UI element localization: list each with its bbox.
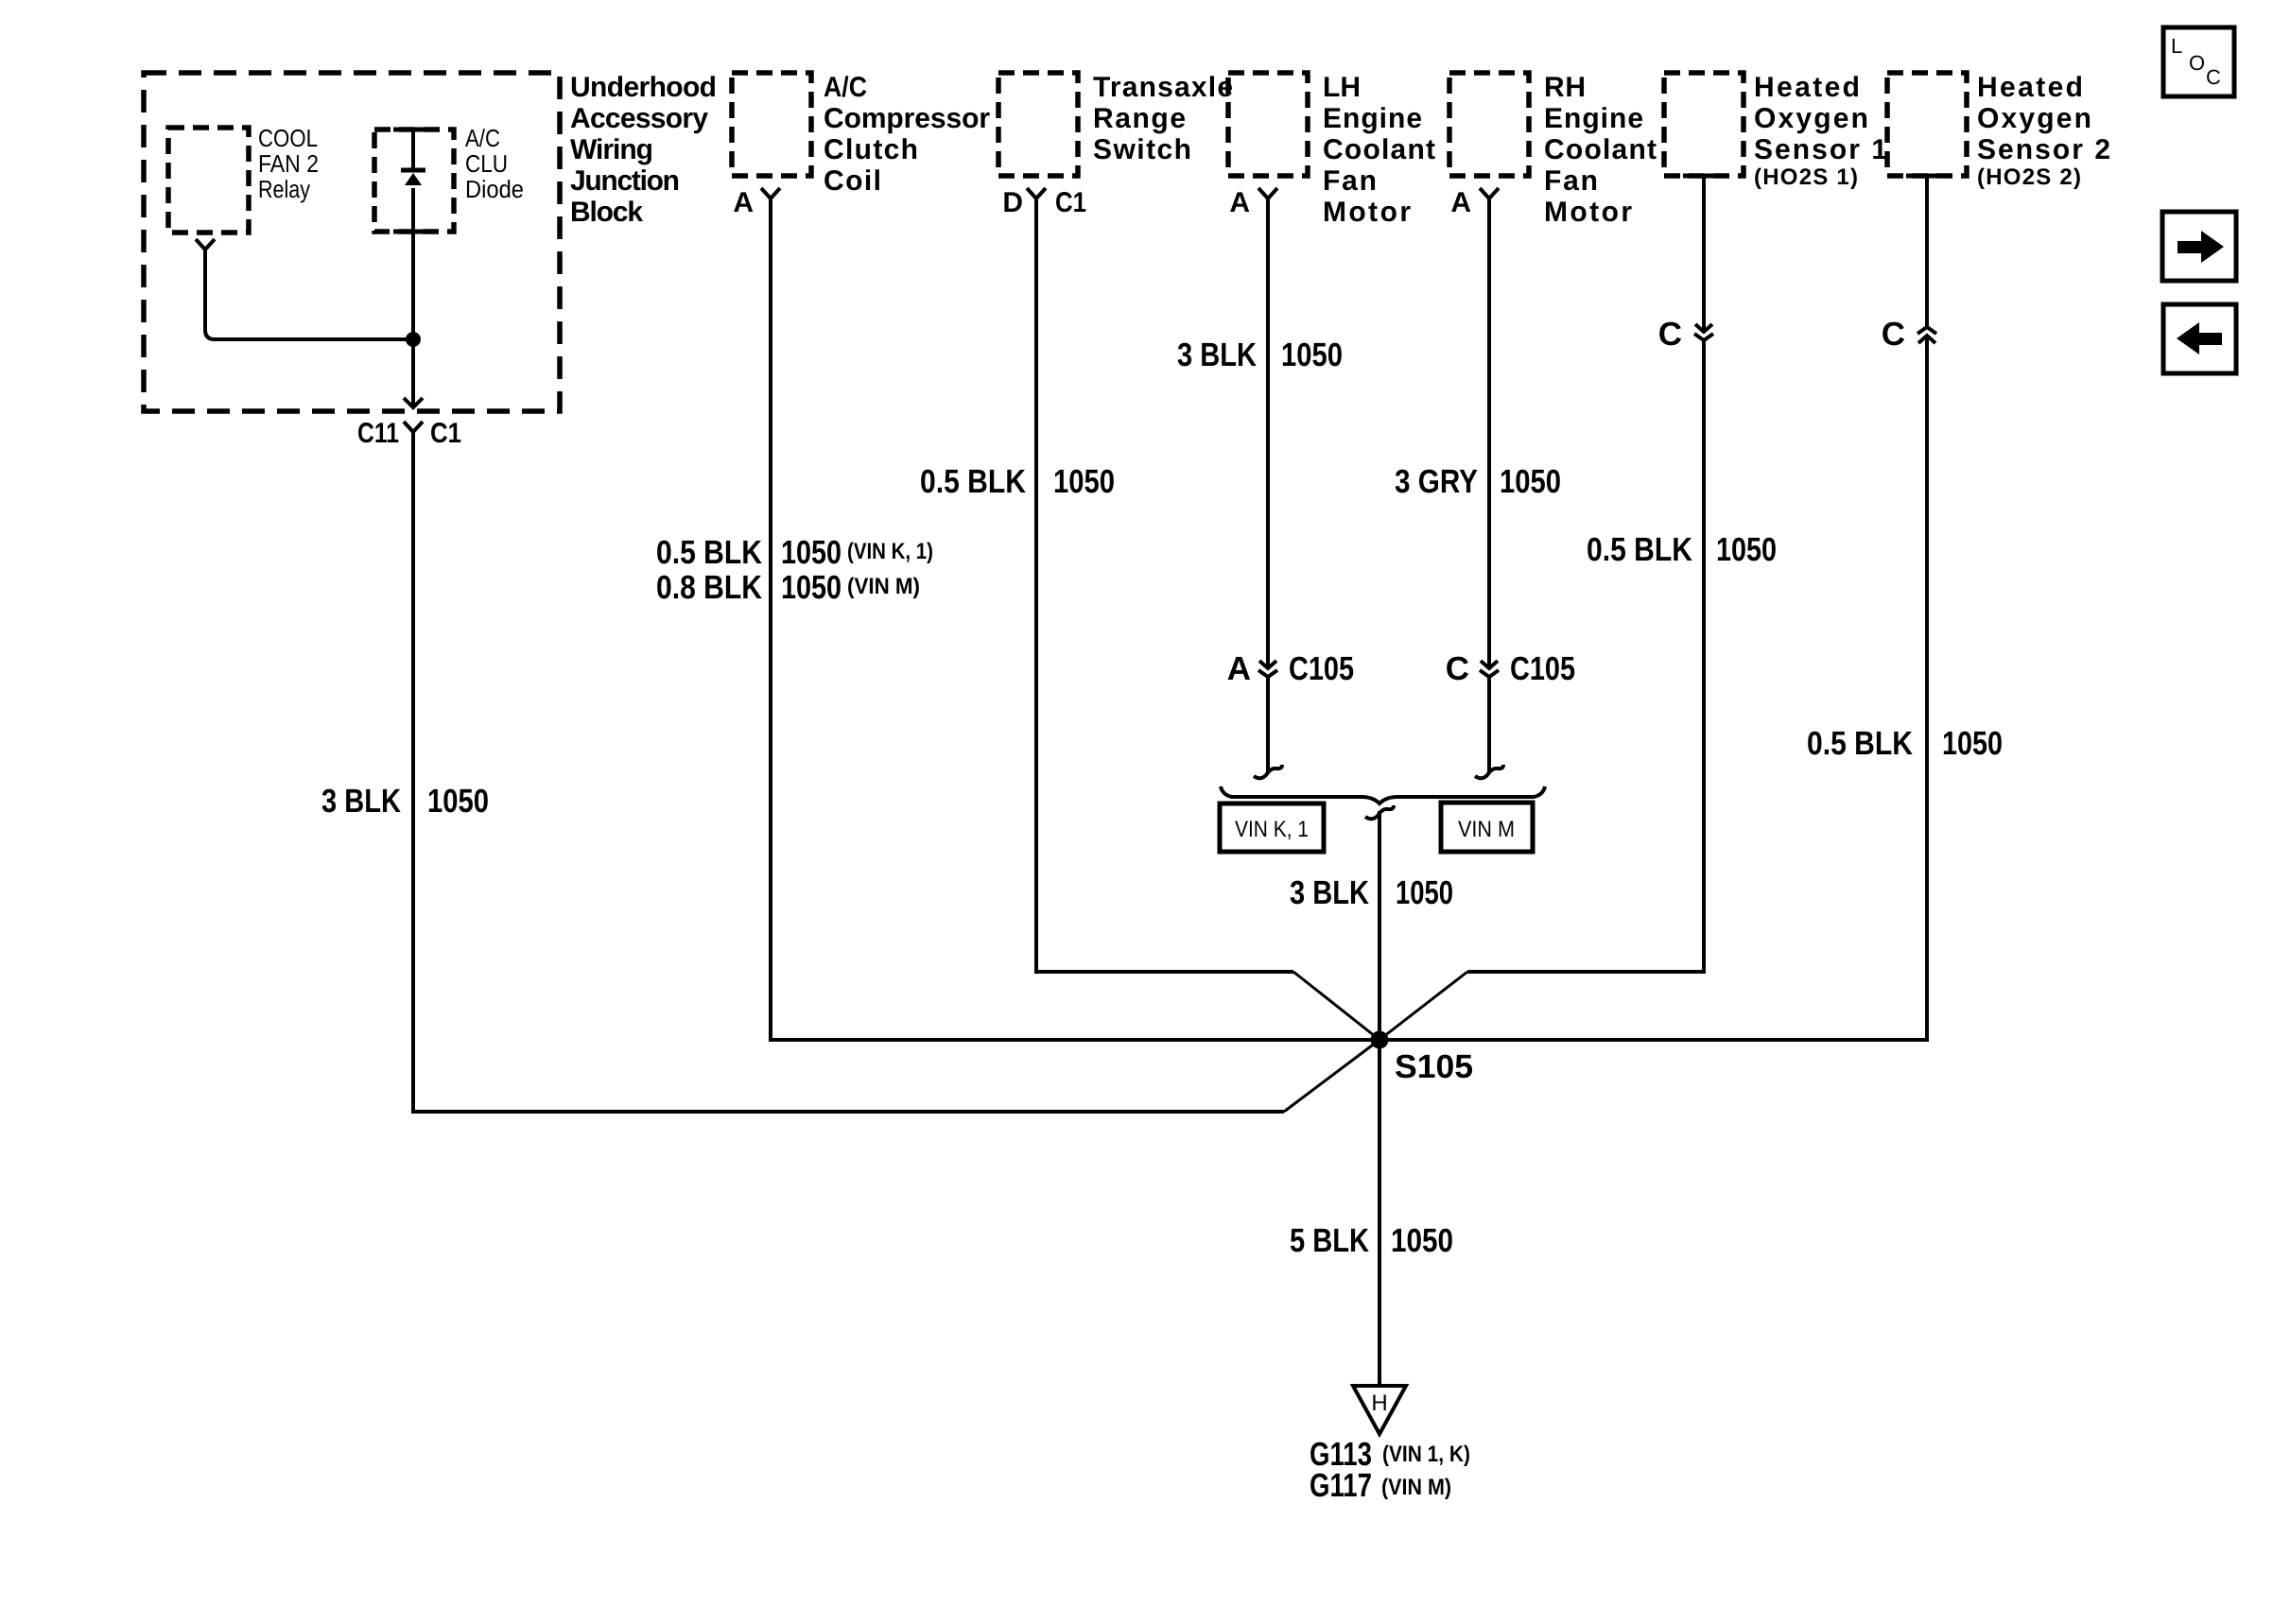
- svg-text:Range: Range: [1093, 103, 1186, 134]
- svg-text:Wiring: Wiring: [570, 134, 653, 165]
- svg-text:1050: 1050: [427, 783, 489, 820]
- svg-text:0.5 BLK: 0.5 BLK: [656, 534, 762, 571]
- svg-text:LH: LH: [1323, 72, 1361, 103]
- svg-text:Coolant: Coolant: [1323, 134, 1435, 165]
- svg-text:3 GRY: 3 GRY: [1395, 463, 1478, 500]
- svg-text:C11: C11: [357, 418, 399, 449]
- svg-text:A: A: [733, 187, 754, 218]
- svg-text:C1: C1: [1055, 187, 1086, 218]
- svg-text:A: A: [1227, 650, 1251, 687]
- svg-text:(VIN K, 1): (VIN K, 1): [847, 539, 933, 564]
- svg-text:Junction: Junction: [570, 165, 680, 197]
- svg-text:(VIN M): (VIN M): [847, 574, 920, 599]
- svg-text:Oxygen: Oxygen: [1754, 103, 1868, 134]
- svg-text:VIN K, 1: VIN K, 1: [1235, 817, 1309, 842]
- svg-text:FAN 2: FAN 2: [258, 149, 319, 178]
- svg-text:G117: G117: [1310, 1467, 1372, 1504]
- svg-text:Coolant: Coolant: [1544, 134, 1657, 165]
- svg-text:C105: C105: [1289, 650, 1354, 687]
- svg-text:Switch: Switch: [1093, 134, 1191, 165]
- svg-text:5 BLK: 5 BLK: [1290, 1222, 1369, 1259]
- svg-text:Sensor 1: Sensor 1: [1754, 134, 1887, 165]
- svg-text:Accessory: Accessory: [570, 103, 708, 134]
- svg-text:Transaxle: Transaxle: [1093, 72, 1233, 103]
- svg-text:C: C: [1882, 316, 1905, 353]
- svg-text:Oxygen: Oxygen: [1977, 103, 2091, 134]
- svg-text:1050: 1050: [1396, 874, 1453, 911]
- svg-text:C: C: [1446, 650, 1469, 687]
- svg-text:Engine: Engine: [1323, 103, 1422, 134]
- svg-text:1050: 1050: [781, 534, 842, 571]
- svg-text:(HO2S 2): (HO2S 2): [1977, 164, 2081, 190]
- svg-text:Heated: Heated: [1754, 72, 1860, 103]
- svg-text:1050: 1050: [1281, 337, 1343, 373]
- svg-text:(HO2S 1): (HO2S 1): [1754, 164, 1858, 190]
- svg-text:CLU: CLU: [465, 149, 508, 178]
- svg-text:Sensor 2: Sensor 2: [1977, 134, 2110, 165]
- svg-text:COOL: COOL: [258, 124, 318, 152]
- svg-text:Compressor: Compressor: [824, 103, 990, 134]
- svg-text:C: C: [1658, 316, 1682, 353]
- svg-text:1050: 1050: [1391, 1222, 1453, 1259]
- svg-text:1050: 1050: [1500, 463, 1561, 500]
- svg-text:Fan: Fan: [1323, 165, 1377, 197]
- svg-text:D: D: [1002, 187, 1023, 218]
- svg-text:Clutch: Clutch: [824, 134, 918, 165]
- svg-text:1050: 1050: [781, 569, 842, 606]
- svg-text:A/C: A/C: [824, 72, 867, 103]
- svg-text:3 BLK: 3 BLK: [321, 783, 401, 820]
- svg-text:1050: 1050: [1053, 463, 1115, 500]
- svg-text:(VIN M): (VIN M): [1381, 1475, 1451, 1500]
- svg-text:A/C: A/C: [465, 124, 500, 152]
- svg-text:Diode: Diode: [465, 175, 524, 203]
- svg-text:0.8 BLK: 0.8 BLK: [656, 569, 762, 606]
- svg-text:1050: 1050: [1716, 531, 1777, 568]
- svg-text:Relay: Relay: [258, 175, 310, 203]
- svg-text:A: A: [1229, 187, 1250, 218]
- svg-text:Engine: Engine: [1544, 103, 1643, 134]
- svg-text:Heated: Heated: [1977, 72, 2083, 103]
- svg-text:Fan: Fan: [1544, 165, 1598, 197]
- svg-text:3 BLK: 3 BLK: [1177, 337, 1257, 373]
- svg-text:0.5 BLK: 0.5 BLK: [1587, 531, 1692, 568]
- svg-text:0.5 BLK: 0.5 BLK: [1807, 725, 1913, 762]
- svg-text:C: C: [2206, 65, 2221, 89]
- svg-text:C105: C105: [1510, 650, 1575, 687]
- svg-text:L: L: [2171, 34, 2182, 58]
- svg-text:3 BLK: 3 BLK: [1290, 874, 1369, 911]
- svg-text:RH: RH: [1544, 72, 1586, 103]
- svg-text:Coil: Coil: [824, 165, 881, 197]
- svg-text:(VIN 1, K): (VIN 1, K): [1382, 1442, 1470, 1467]
- svg-text:1050: 1050: [1942, 725, 2003, 762]
- svg-text:A: A: [1450, 187, 1471, 218]
- svg-text:S105: S105: [1395, 1048, 1473, 1085]
- svg-text:O: O: [2189, 51, 2205, 75]
- svg-text:Block: Block: [570, 197, 643, 228]
- svg-text:0.5 BLK: 0.5 BLK: [920, 463, 1026, 500]
- svg-text:Underhood: Underhood: [570, 72, 717, 103]
- svg-text:VIN M: VIN M: [1458, 817, 1515, 842]
- svg-text:C1: C1: [430, 418, 461, 449]
- svg-text:H: H: [1371, 1391, 1387, 1416]
